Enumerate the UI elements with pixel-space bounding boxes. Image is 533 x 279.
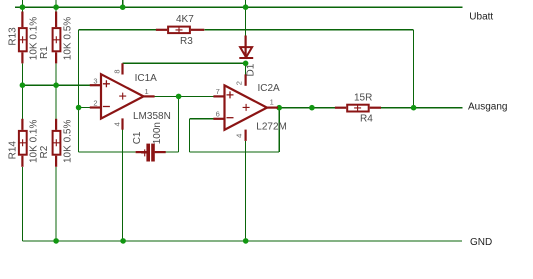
svg-text:R14: R14	[8, 141, 19, 160]
svg-text:15R: 15R	[354, 93, 372, 104]
svg-text:L272M: L272M	[256, 121, 287, 132]
svg-text:D1: D1	[245, 63, 256, 76]
svg-text:IC1A: IC1A	[135, 73, 158, 84]
svg-text:Ausgang: Ausgang	[468, 101, 507, 112]
svg-text:R4: R4	[360, 114, 373, 125]
svg-text:100n: 100n	[152, 122, 163, 144]
svg-text:Ubatt: Ubatt	[469, 11, 493, 22]
svg-text:10K 0.5%: 10K 0.5%	[62, 120, 73, 163]
svg-text:2: 2	[235, 81, 244, 85]
svg-text:4K7: 4K7	[176, 14, 194, 25]
svg-text:2: 2	[93, 99, 97, 108]
svg-text:1: 1	[145, 87, 149, 96]
svg-text:GND: GND	[470, 237, 492, 248]
svg-text:R1: R1	[39, 46, 50, 59]
svg-text:10K 0.1%: 10K 0.1%	[29, 17, 40, 60]
svg-text:R13: R13	[8, 27, 19, 46]
svg-text:10K 0.5%: 10K 0.5%	[62, 17, 73, 60]
svg-text:IC2A: IC2A	[258, 83, 281, 94]
svg-text:R2: R2	[39, 145, 50, 158]
svg-text:C1: C1	[132, 131, 143, 144]
svg-text:7: 7	[216, 87, 220, 96]
svg-text:4: 4	[235, 134, 244, 138]
svg-text:4: 4	[113, 122, 122, 126]
svg-text:10K 0.1%: 10K 0.1%	[29, 120, 40, 163]
svg-text:LM358N: LM358N	[133, 111, 171, 122]
svg-text:6: 6	[216, 110, 220, 119]
svg-text:8: 8	[113, 69, 122, 73]
svg-text:1: 1	[270, 97, 274, 106]
svg-text:R3: R3	[180, 36, 193, 47]
svg-text:3: 3	[93, 76, 97, 85]
